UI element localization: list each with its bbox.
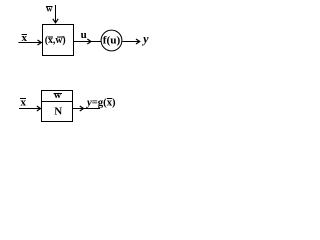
wire x-bar input arrow [19, 40, 42, 45]
block U1 (x,w) box [43, 25, 74, 56]
svg-text:N: N [54, 106, 62, 118]
block N box (bottom) [42, 91, 73, 122]
function circle f(u) [101, 30, 122, 51]
svg-text:f(u): f(u) [103, 35, 121, 46]
svg-text:(x,w): (x,w) [45, 34, 66, 46]
wire u from box to circle with mid arrowhead [74, 39, 102, 44]
wire bottom input arrow [19, 106, 41, 111]
node x-bar (bottom input label) [20, 96, 26, 108]
svg-text:w: w [54, 90, 62, 101]
node y=g(x-bar) (bottom output label) [85, 97, 116, 108]
svg-text:w: w [46, 3, 53, 13]
svg-text:u: u [81, 29, 87, 41]
node x-bar (top left input label) [21, 32, 27, 44]
node w-bar (top input label) [46, 3, 53, 13]
wire output y arrow [123, 39, 140, 44]
wire w-bar arrow into box top [53, 5, 58, 23]
node w-bar (inside N box top cell) [53, 90, 62, 101]
svg-text:y: y [141, 32, 149, 46]
wire bottom output arrow [73, 106, 101, 111]
